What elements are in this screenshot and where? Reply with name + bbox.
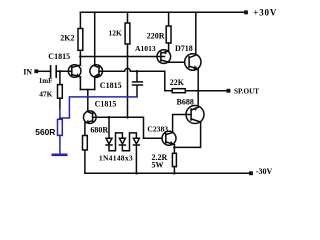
- transistor Q2 C1815 feedback (mirrored): [90, 65, 103, 78]
- wire Q1 emitter down: [79, 77, 81, 90]
- svg-text:B688: B688: [177, 97, 194, 106]
- wire blue 560R bottom lead: [59, 135, 61, 154]
- svg-text:C2383: C2383: [147, 124, 168, 133]
- capacitor 1uF input: [51, 66, 57, 77]
- wire blue 47K-560R junction down: [59, 108, 61, 119]
- wire IN to C-in: [38, 70, 50, 72]
- svg-text:C1815: C1815: [48, 52, 70, 61]
- svg-text:-30V: -30V: [256, 167, 273, 176]
- diode D1 1N4148: [106, 138, 112, 145]
- wire B688 bottom to 2.2R node: [174, 122, 200, 147]
- svg-text:220R: 220R: [147, 32, 165, 41]
- wire 12K bottom down to Q3 base line: [127, 44, 129, 117]
- wire output elbow to 22K: [165, 90, 172, 92]
- node junction output rail: [197, 89, 200, 92]
- node junction 12K line end: [126, 116, 129, 119]
- wire A1013 collector to D718 base: [169, 61, 185, 63]
- node +30V terminal: [244, 10, 248, 14]
- svg-text:5W: 5W: [152, 160, 164, 169]
- wire 2.2R bottom to -30V rail: [173, 167, 175, 174]
- node junction comp-cap top: [136, 70, 139, 73]
- resistor 2.2R 5W: [172, 153, 176, 166]
- node junction 12K bottom on wire1: [126, 55, 129, 58]
- svg-text:1N4148x3: 1N4148x3: [99, 154, 133, 163]
- diode D3 1N4148: [133, 138, 139, 145]
- wire D3 cathode to -30V rail: [135, 146, 137, 174]
- node junction 2.2R top: [173, 146, 176, 149]
- wire top +30V rail: [80, 11, 244, 13]
- wire B688 base elbow to C2383 collector: [173, 115, 186, 133]
- transistor Q1 C1815 input: [68, 65, 81, 78]
- svg-text:22K: 22K: [170, 78, 185, 87]
- svg-text:2K2: 2K2: [60, 33, 74, 42]
- node junction diode feed: [108, 116, 111, 119]
- wire D1 cathode to D2 anode: [109, 133, 122, 151]
- wire Q2 emitter down: [94, 77, 96, 90]
- wire C2383 emitter to 2.2R: [173, 145, 175, 154]
- wire tail tap to Q3 collector: [87, 90, 89, 112]
- resistor 22K: [172, 89, 185, 93]
- capacitor C-comp plates: [133, 82, 143, 85]
- wire 47K bottom lead: [59, 98, 61, 108]
- resistor 680R: [83, 136, 88, 151]
- wire emitters U join: [80, 89, 94, 91]
- wire Q3 emitter down: [84, 123, 86, 136]
- wire node-A to A1013 base (wire1): [80, 56, 164, 58]
- resistor 2K2: [78, 29, 83, 51]
- node IN terminal: [34, 69, 38, 73]
- diode D2 1N4148: [119, 138, 125, 145]
- capacitor C-comp top lead: [136, 71, 138, 81]
- svg-text:C1815: C1815: [100, 81, 122, 90]
- svg-text:SP.OUT: SP.OUT: [234, 88, 259, 96]
- resistor 560R blue: [58, 119, 63, 135]
- wire 12K top lead: [127, 12, 129, 23]
- node -30V terminal: [249, 171, 253, 175]
- node blue open terminal bar: [53, 154, 66, 157]
- wire diode feed: [108, 117, 110, 138]
- transistor U-A1013 driver PNP: [157, 50, 171, 64]
- svg-text:C1815: C1815: [95, 99, 117, 108]
- transistor Q4 C2383 driver NPN: [162, 131, 176, 145]
- node junction 2.2R on rail: [173, 172, 176, 175]
- transistor U-B688 output PNP: [186, 106, 204, 124]
- wire elbow to C2383 base: [144, 137, 163, 139]
- wire Q2 collector to +30V rail: [94, 12, 96, 64]
- wire 47K top lead: [59, 71, 61, 84]
- svg-text:+30V: +30V: [253, 8, 277, 18]
- wire 220R bottom to A1013 emitter: [168, 43, 170, 51]
- transistor Q3 C1815 (mirrored): [84, 111, 97, 124]
- wire D718 emitter down to output rail and B688: [197, 69, 199, 106]
- wire D718 collector to +30V rail: [195, 12, 197, 54]
- svg-text:47K: 47K: [39, 90, 52, 99]
- svg-text:680R: 680R: [90, 126, 108, 135]
- resistor 12K: [125, 23, 130, 44]
- svg-text:IN: IN: [23, 67, 32, 76]
- wire blue tee to riser: [60, 97, 137, 118]
- wire 680R bottom to -30V rail: [85, 150, 250, 173]
- resistor 47K: [58, 85, 63, 99]
- transistor U-D718 output NPN: [185, 54, 201, 70]
- node junction A (2K2 / Q1 collector / wire1): [79, 55, 82, 58]
- wire 2K2 bottom to Q1 collector: [79, 50, 81, 65]
- resistor 220R: [166, 26, 171, 43]
- node SP.OUT terminal: [227, 89, 231, 93]
- node junction 47K tap: [59, 70, 62, 73]
- wire 220R top lead: [168, 12, 170, 26]
- wire 2K2 top lead: [79, 12, 81, 28]
- wire blue feedback network: [53, 97, 137, 155]
- svg-text:560R: 560R: [35, 127, 55, 137]
- wire Q2 base to out elbow (feedback wire2 with hop over 12K line): [103, 68, 165, 90]
- wire D2 cathode to D3 anode: [122, 133, 136, 151]
- svg-text:1mF: 1mF: [39, 77, 53, 85]
- svg-text:A1013: A1013: [135, 44, 156, 53]
- svg-text:D718: D718: [175, 44, 193, 53]
- svg-text:12K: 12K: [109, 29, 123, 38]
- node junction D3 on rail: [135, 172, 138, 175]
- wire C-in to Q1 base: [57, 70, 72, 72]
- wire Q3 base line: [96, 117, 143, 138]
- capacitor C-comp bottom lead: [136, 86, 138, 97]
- wire 22K to SP.OUT: [185, 90, 227, 92]
